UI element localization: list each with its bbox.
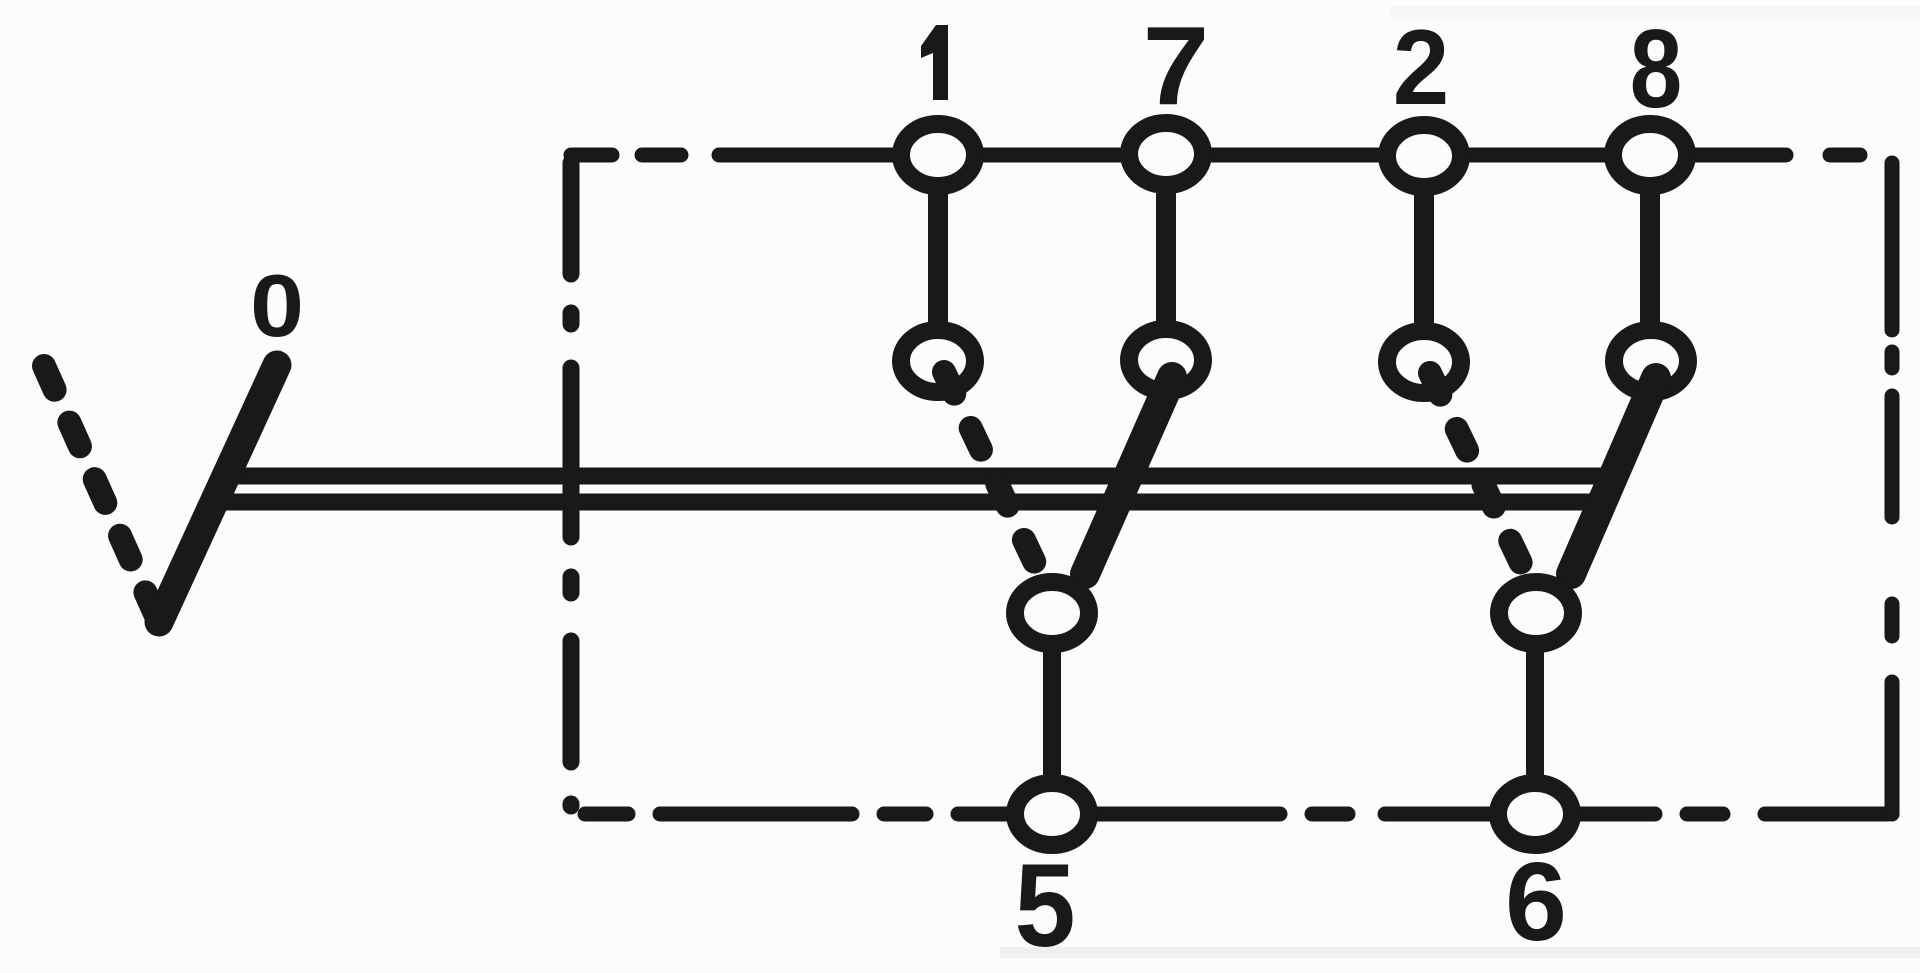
contact circle under 7 bbox=[1129, 329, 1203, 391]
blade alt position pole B (dashed) bbox=[1430, 373, 1529, 580]
enclosure dashed outline: bottom edge bbox=[585, 807, 1892, 822]
contact circle under 1 bbox=[901, 330, 975, 392]
terminal 6 circle bbox=[1498, 783, 1572, 845]
svg-text:8: 8 bbox=[1630, 7, 1682, 131]
lever 0 alternate position (dashed) bbox=[44, 366, 156, 616]
terminal 7 circle bbox=[1129, 123, 1203, 185]
terminal 5 circle bbox=[1015, 783, 1089, 845]
wire: terminal 1 down bbox=[928, 155, 948, 361]
wire: terminal 7 down bbox=[1156, 154, 1176, 360]
scan artifact: faint band bottom bbox=[1000, 947, 1920, 958]
enclosure dashed outline: top edge bbox=[571, 148, 1860, 163]
actuator bar (double line) bbox=[213, 476, 1604, 502]
pivot circle pole A bbox=[1015, 582, 1089, 644]
terminal 8 circle bbox=[1613, 124, 1687, 186]
svg-text:2: 2 bbox=[1393, 9, 1450, 128]
terminal 1 circle bbox=[901, 124, 975, 186]
pivot circle pole B bbox=[1499, 582, 1573, 644]
terminal 2 circle bbox=[1387, 125, 1461, 187]
wire: terminal 8 down bbox=[1640, 155, 1660, 361]
contact circle under 8 bbox=[1614, 330, 1688, 392]
svg-text:0: 0 bbox=[250, 256, 304, 355]
wire: top bus through terminals 1,7,2,8 bbox=[719, 148, 1786, 163]
wire: pivot to terminal 5 bbox=[1043, 613, 1061, 814]
svg-text:7: 7 bbox=[1143, 4, 1210, 128]
contact circle under 2 bbox=[1387, 331, 1461, 393]
enclosure dashed outline: right edge bbox=[1885, 163, 1900, 814]
blade alt position pole A (dashed) bbox=[944, 372, 1043, 580]
label 1 bbox=[921, 25, 948, 100]
svg-text:6: 6 bbox=[1505, 840, 1567, 964]
wire: pivot to terminal 6 bbox=[1526, 613, 1544, 814]
wire: terminal 2 down bbox=[1414, 156, 1434, 362]
blade pole B (solid) bbox=[1571, 378, 1656, 574]
blade pole A (solid) bbox=[1085, 377, 1172, 574]
scan artifact: faint band top right bbox=[1390, 6, 1920, 19]
lever 0 (solid) bbox=[159, 365, 277, 622]
enclosure dashed outline: left edge bbox=[563, 163, 580, 806]
